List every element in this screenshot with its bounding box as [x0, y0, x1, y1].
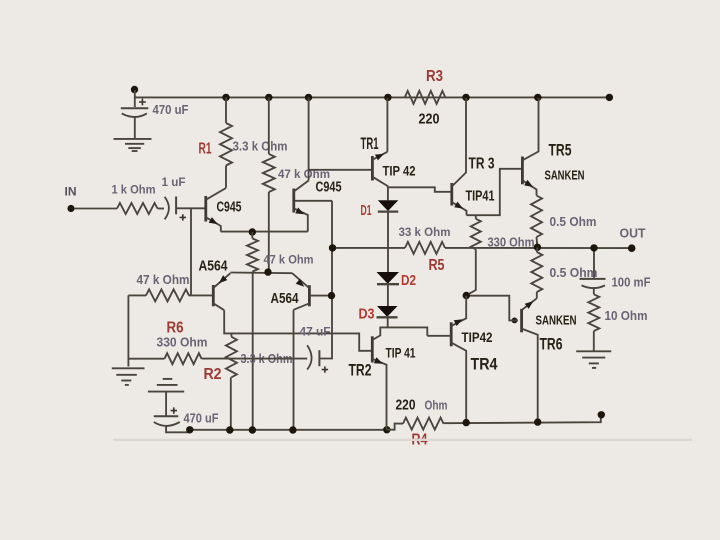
- diode D1: [378, 200, 399, 211]
- transistor TR5 bar: [521, 157, 524, 185]
- wire TR3 emitter to TR5 base: [467, 169, 523, 215]
- svg-text:TR2: TR2: [349, 361, 372, 380]
- node TR6 base dot: [512, 318, 518, 324]
- svg-text:R5: R5: [429, 257, 445, 274]
- transistor TR1 collector diagonal: [372, 177, 387, 188]
- capacitor C6 470uF bottom electrolytic: [165, 392, 167, 417]
- wire bottom rail right section: [444, 417, 601, 423]
- wire R6 to C4 through R2: [202, 358, 308, 360]
- resistor 0.5 Ohm lower: [536, 248, 539, 253]
- svg-text:330 Ohm: 330 Ohm: [488, 236, 535, 250]
- node TR4 emitter junction dot: [463, 292, 470, 299]
- transistor TR2 bar: [371, 336, 374, 362]
- wire shared emitter line Q1-Q2: [221, 231, 308, 233]
- node tail rail dot: [249, 426, 256, 433]
- svg-text:OUT: OUT: [620, 227, 646, 241]
- diode D3: [377, 306, 398, 317]
- svg-text:0.5 Ohm: 0.5 Ohm: [550, 215, 597, 229]
- svg-text:TR6: TR6: [540, 336, 563, 354]
- capacitor C4 47uF feedback: [307, 345, 311, 369]
- svg-text:330 Ohm: 330 Ohm: [157, 336, 208, 350]
- resistor 47k vertical from rail: [268, 97, 270, 154]
- node mid line 100mF junction dot: [590, 244, 597, 251]
- wire mid bias line from feedback node: [333, 247, 406, 249]
- transistor TR1 emitter diagonal with arrow: [372, 152, 387, 160]
- wire input node down to A564 base line: [190, 208, 192, 295]
- wire top supply rail: [135, 96, 610, 98]
- transistor TR4 bar: [450, 322, 453, 346]
- svg-text:IN: IN: [65, 187, 77, 199]
- svg-text:SANKEN: SANKEN: [536, 314, 577, 328]
- svg-text:1 uF: 1 uF: [162, 175, 186, 189]
- node rail junction TR5 collector: [534, 94, 541, 101]
- wire Q2 collector branch: [308, 97, 310, 180]
- svg-text:A564: A564: [199, 259, 228, 275]
- transistor Q2 collector diagonal: [294, 181, 309, 192]
- resistor 47k input bias horizontal: [146, 289, 189, 301]
- svg-text:R6: R6: [167, 320, 184, 337]
- svg-text:TR5: TR5: [549, 142, 572, 160]
- wire mid line to OUT: [445, 247, 629, 249]
- transistor A564 Q3 bar: [212, 285, 215, 306]
- transistor TR6 bar: [520, 309, 523, 333]
- wire TR1 collector stub to D1: [387, 187, 389, 200]
- inverted ground above C6: [163, 378, 173, 380]
- resistor 33k mid: [405, 242, 445, 254]
- svg-text:100 mF: 100 mF: [612, 276, 651, 290]
- terminal IN with dot: [67, 205, 74, 212]
- transistor TR3 emitter diagonal with arrow: [452, 202, 467, 215]
- node rail junction TR3 collector: [462, 94, 469, 101]
- resistor R1 3.3k vertical: [225, 97, 227, 123]
- node TR4 collector rail dot: [463, 419, 470, 426]
- wire TR4 base from TR2 collector: [427, 335, 451, 337]
- svg-text:A564: A564: [271, 291, 299, 307]
- resistor 10 Ohm zobel: [593, 288, 595, 295]
- svg-text:Ohm: Ohm: [425, 399, 448, 413]
- svg-text:D2: D2: [401, 272, 416, 289]
- wire D2 to D3: [387, 285, 389, 307]
- svg-text:470 uF: 470 uF: [153, 103, 189, 117]
- svg-text:1 k Ohm: 1 k Ohm: [112, 183, 156, 197]
- svg-text:R1: R1: [199, 141, 212, 158]
- svg-text:SANKEN: SANKEN: [545, 169, 585, 183]
- wire TR1 base line: [309, 169, 373, 171]
- node mid-feedback junction dot: [329, 244, 336, 251]
- transistor Q1 C945 bar: [204, 196, 207, 222]
- capacitor C5 100mF output: [580, 278, 606, 280]
- resistor R4 220 bottom: [403, 418, 444, 430]
- transistor Q3 collector diagonal: [213, 303, 224, 310]
- node R2 rail dot: [226, 426, 233, 433]
- transistor TR2 collector diagonal and line to TR4: [372, 327, 427, 340]
- wire 47k resistor down to tail node: [268, 192, 270, 272]
- transistor TR6 collector diagonal down to rail: [522, 329, 538, 422]
- terminal OUT with dot: [628, 244, 636, 252]
- wire TR1 emitter to rail: [386, 98, 388, 152]
- svg-text:3.3 k Ohm: 3.3 k Ohm: [233, 140, 288, 154]
- resistor 330 Ohm R5 vertical: [475, 215, 477, 219]
- ground below zobel network: [576, 350, 611, 352]
- node TR2 emitter rail dot: [383, 426, 390, 433]
- resistor R6 330 horizontal: [165, 353, 202, 364]
- transistor Q3 emitter diagonal with arrow: [213, 273, 230, 288]
- svg-text:R3: R3: [426, 68, 443, 85]
- transistor Q2 C945 right bar: [292, 189, 295, 213]
- svg-text:TR1: TR1: [361, 135, 379, 153]
- transistor Q4 collector diagonal: [294, 303, 310, 310]
- node top of C7 with terminal dot: [131, 86, 138, 93]
- wire feedback vertical line: [319, 201, 332, 359]
- wire Q2 base to feedback node: [295, 200, 332, 202]
- svg-text:47 uF: 47 uF: [300, 325, 331, 339]
- node tail junction dot: [249, 228, 256, 235]
- wire 100mF branch from mid line: [593, 248, 595, 279]
- svg-text:220: 220: [396, 398, 416, 414]
- transistor TR6 emitter diagonal with arrow: [523, 298, 537, 309]
- node rail-R1 junction: [222, 94, 229, 101]
- transistor Q1 emitter diagonal with arrow: [206, 217, 221, 231]
- svg-text:C945: C945: [316, 180, 342, 196]
- wire tail resistor to bottom rail: [252, 272, 254, 431]
- svg-text:470 uF: 470 uF: [184, 412, 219, 426]
- node feedback-base junction dot: [328, 292, 335, 299]
- resistor R7 1k input: [117, 203, 158, 214]
- node 47k tail junction dot on emitter line: [264, 268, 271, 275]
- transistor TR5 emitter diagonal with arrow: [522, 180, 536, 195]
- ground below input network: [112, 367, 145, 369]
- wire bottom rail step to R4: [387, 424, 403, 430]
- wire Q4 collector down to bottom rail: [293, 310, 295, 430]
- transistor TR3 bar: [450, 183, 453, 206]
- svg-text:TR4: TR4: [471, 355, 498, 374]
- transistor A564 Q4 bar mirrored: [308, 285, 311, 306]
- wire emitters line A564 pair: [230, 272, 292, 275]
- wire Q3 collector down and TR2 base line: [224, 310, 372, 351]
- svg-text:10 Ohm: 10 Ohm: [605, 309, 648, 323]
- wire Q4 base to feedback line: [309, 295, 331, 297]
- transistor TR4 emitter diagonal with arrow to node: [451, 296, 466, 326]
- svg-text:220: 220: [419, 111, 440, 128]
- svg-text:33 k Ohm: 33 k Ohm: [399, 225, 451, 239]
- node rail junction for Q2 collector: [305, 94, 312, 101]
- resistor 0.5 Ohm upper: [531, 196, 542, 238]
- resistor R2 3.3k vertical: [230, 333, 232, 336]
- svg-text:47 k Ohm: 47 k Ohm: [137, 273, 190, 287]
- svg-text:TIP42: TIP42: [462, 329, 493, 345]
- wire D1 to D2: [387, 212, 389, 272]
- wire TR1 collector to TR3 base with step: [388, 187, 452, 192]
- resistor R3 220 on rail: [405, 91, 446, 104]
- transistor Q2 emitter diagonal with arrow: [294, 208, 308, 231]
- transistor Q4 emitter diagonal with arrow: [292, 273, 309, 288]
- transistor TR2 emitter diagonal with arrow: [372, 359, 386, 430]
- node rail junction for 47k resistor: [265, 94, 272, 101]
- svg-text:TIP41: TIP41: [466, 188, 495, 205]
- svg-text:TIP 42: TIP 42: [383, 163, 416, 179]
- wire 47k left lead down to ground: [128, 294, 146, 296]
- node output junction dot at 0.5 ohm resistors: [534, 244, 541, 251]
- transistor TR5 collector diagonal to rail: [522, 98, 538, 160]
- wire R7 to C1: [158, 208, 165, 210]
- wire bottom-left rail: [190, 429, 387, 431]
- wire TR6 base feed from TR4 emitter node: [466, 296, 518, 321]
- node C6 rail dot: [186, 426, 193, 433]
- diode D2: [377, 272, 400, 284]
- wire D3 down to TR2 collector line: [387, 318, 389, 328]
- shadow line bottom: [113, 439, 692, 441]
- capacitor C1 1uF coupling: [165, 197, 169, 220]
- capacitor C7 470uF top-left electrolytic: [139, 99, 146, 106]
- wire Q3 base line: [189, 294, 214, 296]
- svg-text:C945: C945: [217, 200, 242, 216]
- ground below C7: [114, 138, 152, 140]
- svg-text:47 k Ohm: 47 k Ohm: [264, 253, 314, 267]
- transistor TR3 collector diagonal and wire to rail: [452, 98, 466, 187]
- transistor TR1 TIP42 bar: [371, 156, 374, 181]
- node TR6 collector rail dot: [534, 418, 541, 425]
- node rail right endpoint: [606, 94, 613, 101]
- resistor 47k tail: [251, 232, 253, 239]
- node Q4 collector rail dot: [289, 426, 296, 433]
- wire IN to R7: [74, 208, 117, 210]
- svg-text:TIP 41: TIP 41: [386, 345, 416, 361]
- svg-text:R2: R2: [204, 366, 222, 383]
- svg-text:TR 3: TR 3: [469, 156, 495, 173]
- transistor Q1 collector diagonal: [206, 188, 226, 200]
- transistor TR4 collector diagonal down to rail: [451, 343, 466, 423]
- node bottom rail right endpoint dot: [598, 411, 605, 418]
- node rail junction for TR1 emitter: [384, 94, 391, 101]
- svg-text:D1: D1: [361, 202, 372, 219]
- wire C1 to Q1 base: [176, 207, 206, 209]
- svg-text:D3: D3: [359, 306, 375, 323]
